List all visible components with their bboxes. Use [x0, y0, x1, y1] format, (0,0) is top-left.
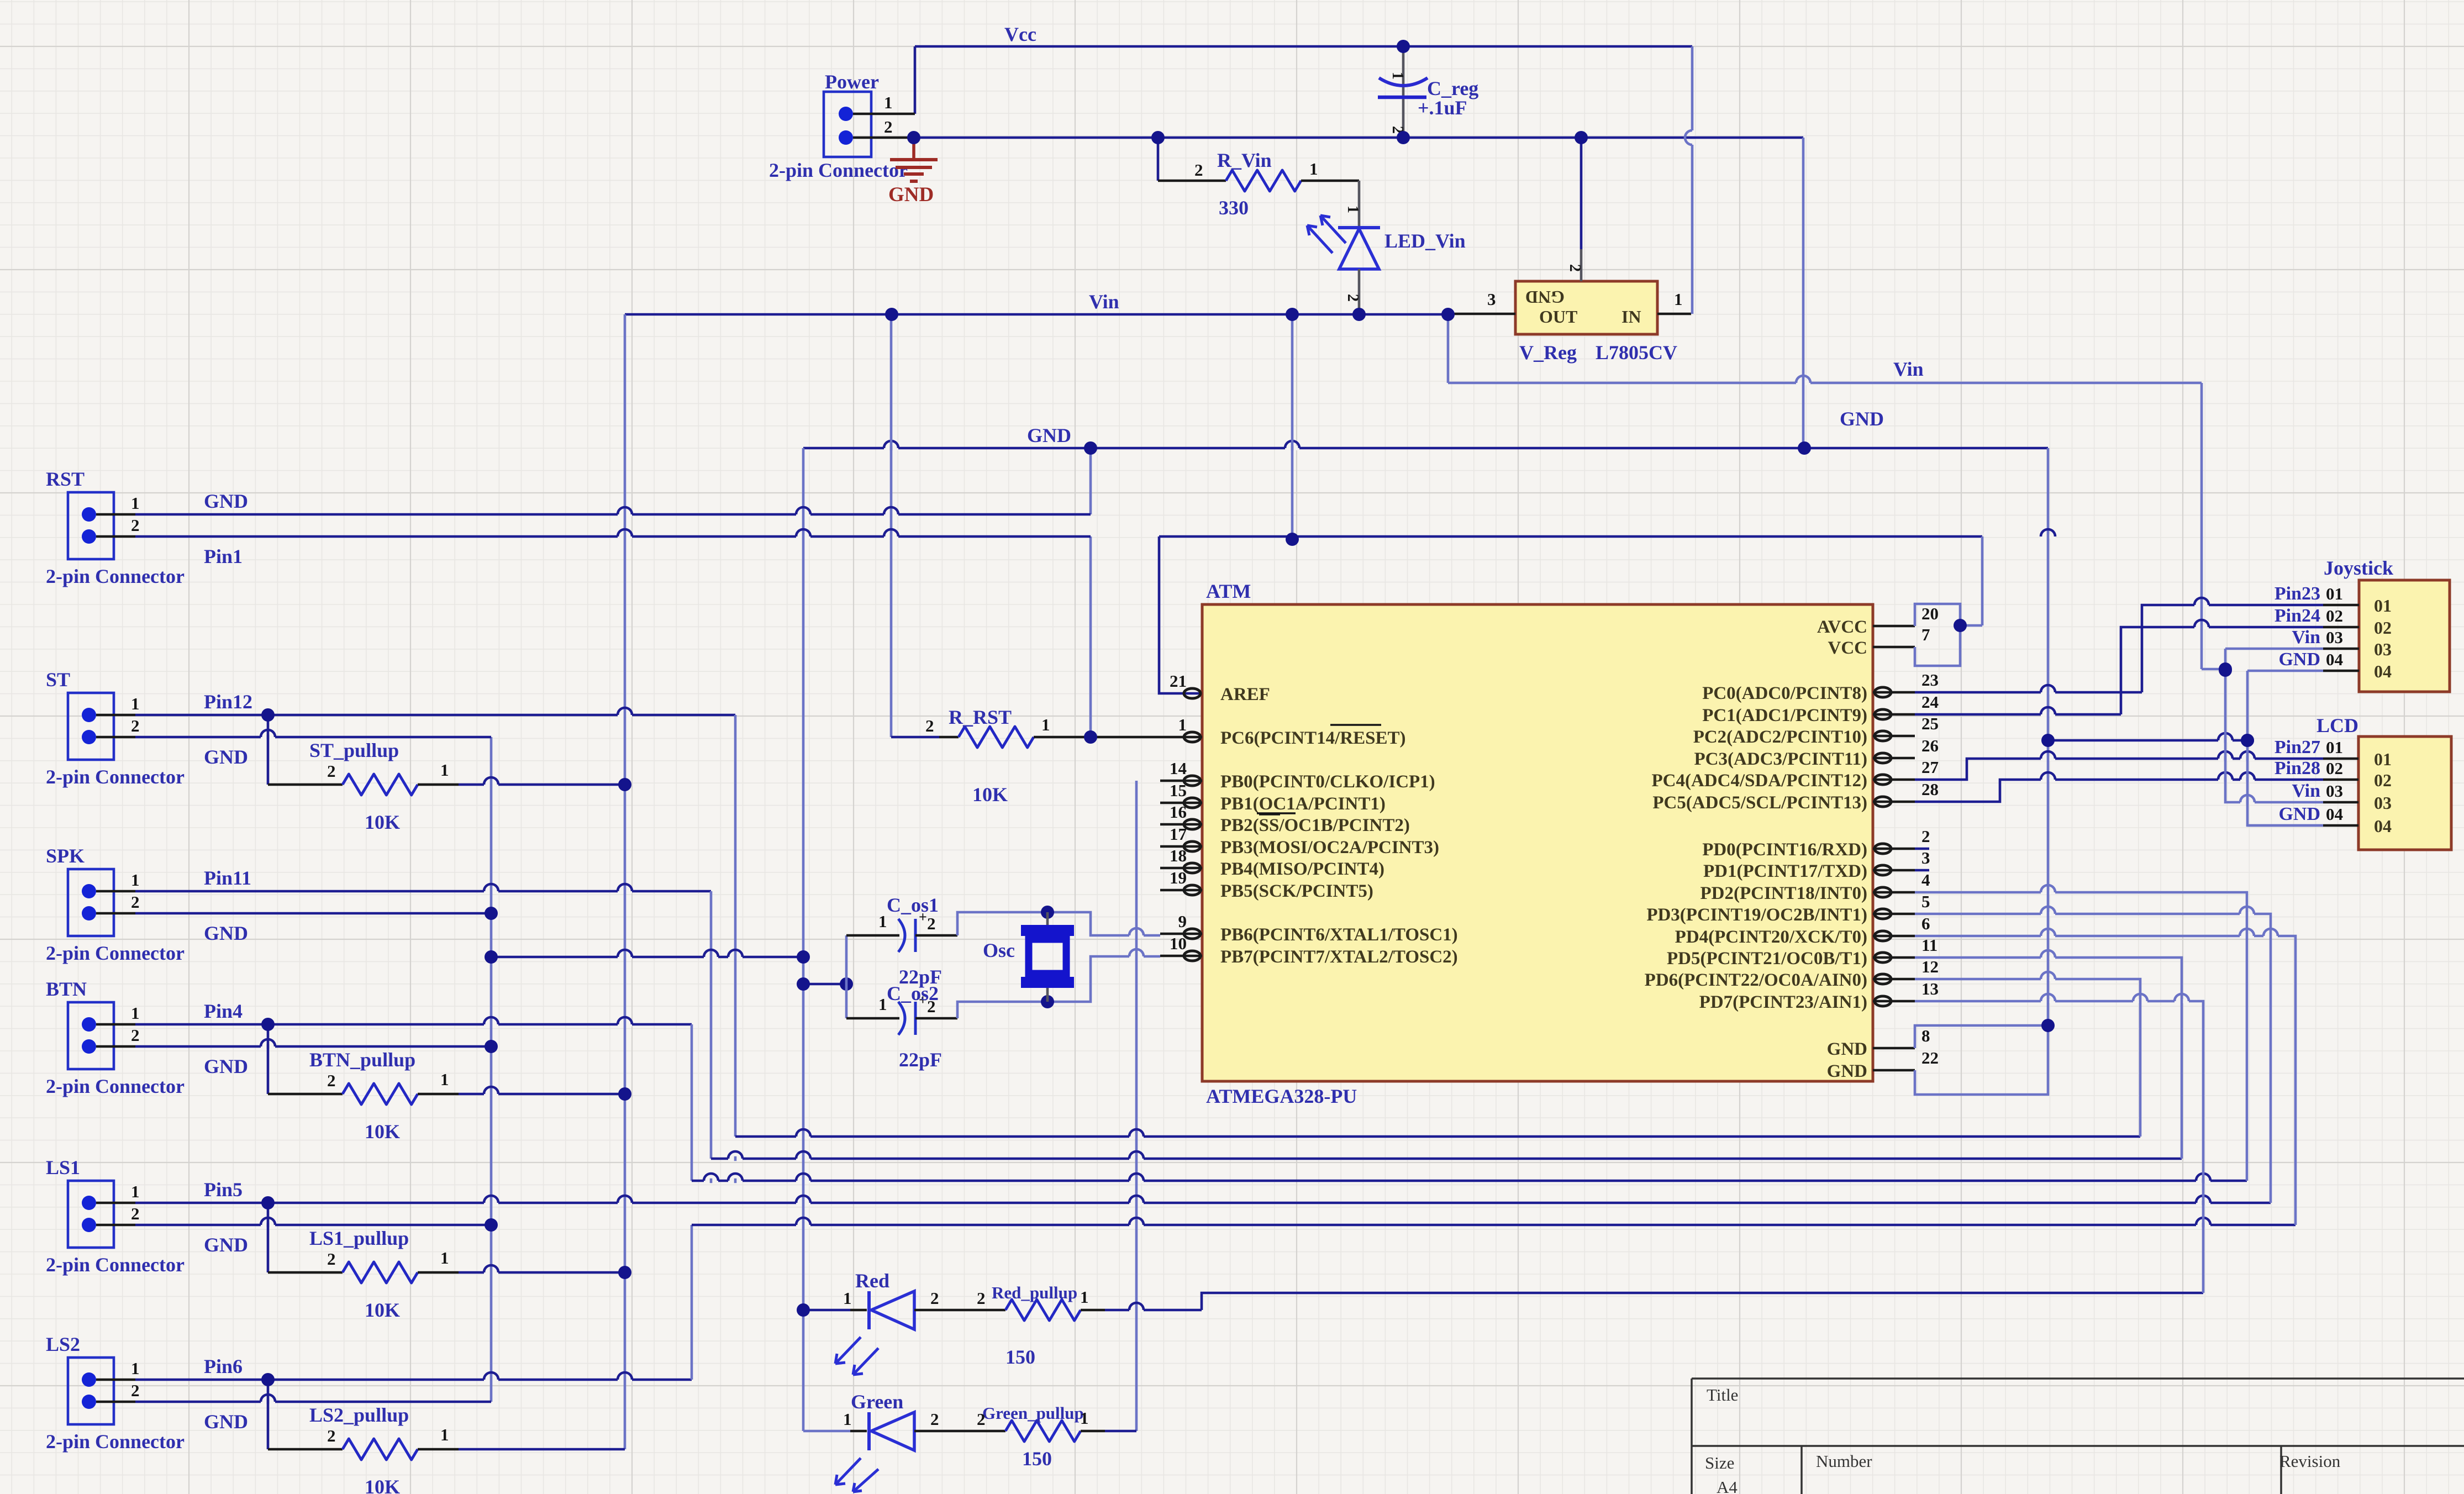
IC ATM ATMEGA328-PU [1202, 604, 1873, 1081]
svg-text:1: 1 [131, 1182, 140, 1201]
pin 25 PC2 right [1873, 735, 1915, 738]
connector Power [824, 92, 871, 157]
svg-text:Vcc: Vcc [1004, 23, 1036, 45]
pin 21 AREF [1184, 688, 1201, 698]
svg-text:GND: GND [204, 1411, 248, 1433]
title block [1692, 1377, 2464, 1380]
wire Vcc top bus [915, 45, 1692, 48]
svg-text:GND: GND [204, 746, 248, 768]
wire Pin28 net PC5 to LCD 02 [1915, 780, 2323, 802]
svg-text:Number: Number [1816, 1451, 1872, 1471]
wire Pin11 net [135, 890, 711, 893]
svg-text:1: 1 [1674, 290, 1683, 309]
wire Pin27 net PC4 to LCD 01 [1915, 759, 2323, 780]
svg-text:14: 14 [1170, 759, 1187, 778]
pin Joystick 02 [2323, 626, 2359, 629]
svg-text:22: 22 [1921, 1048, 1939, 1067]
svg-text:GND: GND [1827, 1061, 1867, 1081]
wire Vcc right riser to IN [1691, 46, 1694, 314]
resistor Red_pullup [914, 1309, 1005, 1312]
svg-text:Title: Title [1707, 1385, 1738, 1404]
pin 9 PB6 [1160, 933, 1202, 935]
svg-text:1: 1 [440, 1248, 449, 1267]
svg-text:2-pin Connector: 2-pin Connector [46, 1430, 185, 1453]
svg-text:7: 7 [1921, 625, 1930, 644]
svg-text:GND: GND [1840, 408, 1884, 430]
svg-text:Osc: Osc [983, 939, 1015, 961]
pin 16 PB2 [1160, 823, 1202, 826]
svg-text:2: 2 [1194, 160, 1203, 180]
svg-text:PB7(PCINT7/XTAL2/TOSC2): PB7(PCINT7/XTAL2/TOSC2) [1220, 947, 1458, 967]
wire Pin24 net PC1 to Joystick 02 [1915, 713, 2121, 716]
svg-text:V_Reg: V_Reg [1519, 341, 1577, 364]
wire Vin to AREF AVCC [1159, 535, 1982, 538]
svg-text:1: 1 [131, 493, 140, 513]
svg-text:1: 1 [440, 1070, 449, 1089]
svg-text:2: 2 [131, 1204, 140, 1223]
svg-text:A4: A4 [1717, 1477, 1738, 1494]
svg-text:02: 02 [2374, 770, 2392, 790]
pin Joystick 01 [2323, 604, 2359, 607]
svg-text:Vin: Vin [1089, 291, 1119, 313]
svg-text:PC2(ADC2/PCINT10): PC2(ADC2/PCINT10) [1693, 727, 1867, 747]
svg-text:VCC: VCC [1828, 638, 1868, 658]
capacitor C_os1 [846, 934, 899, 937]
svg-text:ATMEGA328-PU: ATMEGA328-PU [1206, 1085, 1357, 1107]
svg-text:9: 9 [1178, 912, 1187, 931]
svg-text:27: 27 [1921, 757, 1939, 777]
svg-text:11: 11 [1921, 935, 1937, 955]
wire LS2 GND [135, 1401, 491, 1403]
svg-text:2: 2 [327, 1249, 336, 1269]
svg-text:2-pin Connector: 2-pin Connector [46, 942, 185, 964]
svg-text:AVCC: AVCC [1817, 617, 1867, 637]
pin LCD 02 [2323, 778, 2358, 781]
svg-text:18: 18 [1170, 846, 1187, 865]
connector LCD [2358, 737, 2451, 850]
svg-text:10K: 10K [365, 1299, 400, 1321]
svg-text:01: 01 [2326, 584, 2343, 603]
svg-text:R_Vin: R_Vin [1217, 149, 1272, 171]
svg-text:OUT: OUT [1539, 307, 1577, 327]
wire Vin output net [625, 313, 1448, 316]
pin 27 PC4 right [1873, 778, 1915, 781]
svg-text:1: 1 [1041, 715, 1050, 734]
wire Pin1 net to PC6 [135, 535, 1091, 538]
svg-text:C_os1: C_os1 [887, 894, 939, 916]
LED LED_Vin [1358, 181, 1361, 228]
svg-text:ATM: ATM [1206, 580, 1251, 602]
svg-text:02: 02 [2374, 618, 2392, 638]
wire AREF drop [1159, 536, 1202, 693]
wire PD0 PD1 nubs [1915, 848, 1929, 850]
svg-text:2: 2 [927, 914, 936, 933]
connector BTN [68, 1002, 114, 1069]
svg-text:GND: GND [204, 922, 248, 944]
pin 11 PD5 right [1873, 956, 1915, 959]
svg-text:Vin: Vin [2292, 627, 2320, 648]
svg-text:2: 2 [884, 117, 893, 136]
LED Red [803, 1309, 850, 1312]
capacitor C_reg [1402, 48, 1405, 136]
svg-text:BTN_pullup: BTN_pullup [309, 1049, 415, 1071]
svg-text:2-pin Connector: 2-pin Connector [46, 1075, 185, 1097]
pin 13 PD7 right [1873, 1000, 1915, 1003]
svg-text:PC3(ADC3/PCINT11): PC3(ADC3/PCINT11) [1694, 749, 1867, 769]
junction dots [1397, 40, 1410, 53]
svg-text:04: 04 [2326, 804, 2343, 824]
svg-text:1: 1 [843, 1409, 852, 1429]
svg-text:Pin4: Pin4 [204, 1000, 243, 1022]
svg-text:1: 1 [1080, 1408, 1089, 1428]
svg-text:17: 17 [1170, 824, 1187, 844]
svg-text:2: 2 [131, 716, 140, 735]
pin 7 VCC right [1873, 646, 1915, 649]
svg-text:24: 24 [1921, 692, 1939, 712]
svg-text:2: 2 [977, 1409, 986, 1429]
svg-text:PB5(SCK/PCINT5): PB5(SCK/PCINT5) [1220, 881, 1373, 901]
svg-text:Green_pullup: Green_pullup [982, 1403, 1084, 1423]
pin 14 PB0 [1160, 780, 1202, 782]
svg-text:13: 13 [1921, 979, 1939, 998]
wire GND to LCD/Joystick [2048, 739, 2247, 742]
pin 24 PC1 right [1873, 713, 1915, 716]
svg-text:03: 03 [2326, 781, 2343, 801]
svg-text:03: 03 [2326, 628, 2343, 647]
wire caps left rail [845, 935, 848, 1018]
svg-text:6: 6 [1921, 914, 1930, 933]
svg-text:IN: IN [1621, 307, 1641, 327]
pin 28 PC5 right [1873, 801, 1915, 803]
svg-text:GND: GND [204, 490, 248, 512]
svg-text:Pin28: Pin28 [2275, 758, 2320, 778]
svg-text:1: 1 [843, 1288, 852, 1308]
wire GND right riser [1802, 138, 1805, 448]
wire crystal loop [957, 912, 1160, 935]
svg-text:PB6(PCINT6/XTAL1/TOSC1): PB6(PCINT6/XTAL1/TOSC1) [1220, 925, 1458, 945]
wire rail Vin to R_RST [890, 314, 893, 737]
svg-text:+.1uF: +.1uF [1418, 97, 1467, 119]
svg-text:150: 150 [1022, 1448, 1052, 1470]
svg-text:2: 2 [327, 1426, 336, 1445]
pin 2 PD0 right [1873, 848, 1915, 850]
svg-text:12: 12 [1921, 957, 1939, 976]
resistor ST_pullup [267, 715, 270, 785]
svg-text:16: 16 [1170, 802, 1187, 822]
resistor Green_pullup [914, 1430, 1005, 1433]
resistor LS2_pullup [267, 1380, 270, 1449]
svg-text:BTN: BTN [46, 978, 87, 1000]
svg-text:2: 2 [327, 761, 336, 781]
svg-text:GND: GND [1525, 287, 1565, 307]
svg-text:19: 19 [1170, 868, 1187, 887]
svg-text:04: 04 [2374, 816, 2392, 836]
wire Pin12 net [135, 714, 735, 717]
svg-text:26: 26 [1921, 736, 1939, 755]
svg-text:2-pin Connector: 2-pin Connector [46, 766, 185, 788]
svg-text:C_reg: C_reg [1427, 77, 1478, 99]
pin 10 PB7 [1160, 955, 1202, 958]
wire rail PB0 to Green [1135, 781, 1138, 1431]
svg-text:1: 1 [131, 1003, 140, 1023]
pin 6 PD4 right [1873, 935, 1915, 938]
crystal Osc [1046, 912, 1049, 928]
svg-text:2-pin Connector: 2-pin Connector [769, 159, 908, 181]
svg-text:25: 25 [1921, 714, 1939, 733]
wire Pin6 row to PD4 [692, 1224, 2295, 1227]
svg-text:2: 2 [930, 1409, 939, 1429]
svg-text:PD3(PCINT19/OC2B/INT1): PD3(PCINT19/OC2B/INT1) [1646, 905, 1867, 925]
pin 23 PC0 right [1873, 691, 1915, 694]
svg-text:15: 15 [1170, 781, 1187, 800]
svg-text:2-pin Connector: 2-pin Connector [46, 1254, 185, 1276]
wire SPK GND [135, 912, 491, 915]
svg-text:LS2: LS2 [46, 1333, 80, 1355]
svg-text:01: 01 [2326, 738, 2343, 757]
wire BTN GND [135, 1045, 491, 1048]
svg-text:PD0(PCINT16/RXD): PD0(PCINT16/RXD) [1702, 840, 1867, 860]
svg-text:1: 1 [131, 694, 140, 713]
connector LS1 [68, 1181, 114, 1248]
svg-text:1: 1 [878, 912, 887, 931]
svg-text:Size: Size [1705, 1453, 1734, 1472]
wire Pin6 net [135, 1379, 692, 1381]
svg-text:4: 4 [1921, 870, 1930, 890]
svg-text:1: 1 [131, 870, 140, 890]
svg-text:Red_pullup: Red_pullup [992, 1283, 1077, 1302]
svg-text:PD5(PCINT21/OC0B/T1): PD5(PCINT21/OC0B/T1) [1667, 949, 1867, 969]
svg-text:04: 04 [2374, 661, 2392, 681]
connector SPK [68, 869, 114, 936]
regulator V_Reg L7805CV [1515, 281, 1657, 334]
svg-text:1: 1 [131, 1359, 140, 1378]
svg-text:RST: RST [46, 468, 85, 490]
svg-text:02: 02 [2326, 759, 2343, 778]
svg-text:Power: Power [825, 71, 879, 93]
svg-text:Pin12: Pin12 [204, 691, 252, 713]
svg-text:04: 04 [2326, 650, 2343, 669]
svg-text:2: 2 [1566, 264, 1583, 272]
wire ST GND [135, 736, 491, 739]
svg-text:GND: GND [1027, 424, 1071, 446]
svg-text:Vin: Vin [1893, 358, 1924, 380]
svg-text:ST_pullup: ST_pullup [309, 739, 399, 761]
svg-text:Pin1: Pin1 [204, 545, 243, 567]
pin 15 PB1 [1160, 802, 1202, 804]
wire Pin23 net PC0 to Joystick 01 [1915, 691, 2142, 694]
svg-text:2: 2 [131, 515, 140, 535]
wire AVCC VCC feed [1915, 604, 1960, 666]
svg-text:2: 2 [930, 1288, 939, 1308]
svg-text:PB4(MISO/PCINT4): PB4(MISO/PCINT4) [1220, 859, 1384, 879]
svg-text:GND: GND [204, 1234, 248, 1256]
svg-text:02: 02 [2326, 606, 2343, 625]
wire Pin1 riser to R_RST [1089, 536, 1092, 737]
svg-text:20: 20 [1921, 604, 1939, 623]
svg-text:LED_Vin: LED_Vin [1384, 230, 1466, 252]
svg-text:PD7(PCINT23/AIN1): PD7(PCINT23/AIN1) [1699, 992, 1867, 1012]
pin 22 GND right [1873, 1069, 1915, 1072]
svg-text:2: 2 [925, 716, 934, 735]
svg-text:GND: GND [888, 183, 934, 206]
wire GND mid bus [803, 447, 2048, 450]
pin 4 PD2 right [1873, 891, 1915, 894]
svg-text:L7805CV: L7805CV [1596, 341, 1677, 364]
connector Joystick [2359, 580, 2450, 692]
svg-text:GND: GND [2278, 649, 2320, 670]
svg-text:3: 3 [1487, 290, 1496, 309]
connector LS2 [68, 1358, 114, 1424]
pin 5 PD3 right [1873, 913, 1915, 916]
wire rail GND center [802, 448, 805, 1431]
svg-text:2: 2 [1344, 294, 1361, 302]
pin LCD 04 [2323, 824, 2358, 827]
svg-text:Revision: Revision [2279, 1451, 2341, 1471]
pin LCD 01 [2323, 757, 2358, 760]
pin 17 PB3 [1160, 845, 1202, 848]
svg-text:GND: GND [1827, 1039, 1867, 1059]
wire Pin5 net [135, 1202, 2271, 1204]
pin 3 PD1 right [1873, 869, 1915, 872]
svg-text:LS1: LS1 [46, 1156, 80, 1179]
svg-text:PB1(OC1A/PCINT1): PB1(OC1A/PCINT1) [1220, 794, 1386, 814]
svg-text:03: 03 [2374, 639, 2392, 659]
resistor R_RST [891, 736, 939, 739]
svg-text:Pin5: Pin5 [204, 1179, 243, 1201]
wire rail Vin to VCC row [1291, 314, 1294, 539]
svg-text:GND: GND [204, 1055, 248, 1077]
svg-text:8: 8 [1921, 1026, 1930, 1045]
pin LCD 03 [2323, 801, 2358, 804]
svg-text:AREF: AREF [1220, 685, 1270, 704]
svg-text:22pF: 22pF [899, 1049, 942, 1071]
svg-text:1: 1 [878, 995, 887, 1014]
wire power GND net row [914, 136, 1803, 139]
svg-text:ST: ST [46, 669, 70, 691]
pin 19 PB5 [1160, 889, 1202, 892]
svg-text:2: 2 [1921, 827, 1930, 846]
svg-text:PC0(ADC0/PCINT8): PC0(ADC0/PCINT8) [1702, 683, 1867, 703]
connector ST [68, 693, 114, 760]
svg-text:5: 5 [1921, 892, 1930, 911]
svg-text:PC5(ADC5/SCL/PCINT13): PC5(ADC5/SCL/PCINT13) [1652, 793, 1867, 813]
svg-text:2: 2 [327, 1071, 336, 1090]
svg-text:10K: 10K [365, 1120, 400, 1143]
svg-text:10: 10 [1170, 934, 1187, 953]
svg-text:Vin: Vin [2292, 781, 2320, 801]
svg-text:LS2_pullup: LS2_pullup [309, 1404, 409, 1426]
wire rail GND right column [2047, 448, 2050, 1025]
svg-text:1: 1 [1309, 159, 1318, 178]
svg-text:PC4(ADC4/SDA/PCINT12): PC4(ADC4/SDA/PCINT12) [1652, 771, 1868, 791]
svg-text:21: 21 [1170, 671, 1187, 691]
svg-text:1: 1 [440, 760, 449, 780]
svg-text:2-pin Connector: 2-pin Connector [46, 565, 185, 587]
svg-text:01: 01 [2374, 749, 2392, 769]
ground GND symbol [912, 138, 915, 159]
svg-text:Pin6: Pin6 [204, 1355, 243, 1377]
wire chip GND pins [1915, 1025, 2048, 1048]
svg-text:1: 1 [884, 93, 893, 112]
svg-text:Pin24: Pin24 [2275, 606, 2320, 626]
svg-text:150: 150 [1005, 1346, 1035, 1368]
svg-text:PD2(PCINT18/INT0): PD2(PCINT18/INT0) [1700, 883, 1868, 903]
svg-text:1: 1 [1080, 1287, 1089, 1307]
svg-text:Pin27: Pin27 [2275, 737, 2320, 757]
svg-text:1: 1 [1344, 206, 1361, 213]
wire rail pullup Vin column [624, 314, 626, 1449]
svg-text:PB0(PCINT0/CLKO/ICP1): PB0(PCINT0/CLKO/ICP1) [1220, 772, 1435, 792]
pin 8 GND right [1873, 1047, 1915, 1050]
svg-text:GND: GND [2278, 804, 2320, 824]
svg-text:Pin11: Pin11 [204, 867, 251, 889]
svg-text:10K: 10K [972, 783, 1008, 806]
svg-text:LS1_pullup: LS1_pullup [309, 1227, 409, 1249]
pin 18 PB4 [1160, 867, 1202, 870]
wire LS1 GND [135, 1224, 491, 1227]
svg-text:2: 2 [131, 1025, 140, 1045]
svg-text:10K: 10K [365, 811, 400, 833]
svg-text:1: 1 [1389, 72, 1406, 80]
wire RST GND riser [1089, 448, 1092, 514]
svg-text:28: 28 [1921, 780, 1939, 799]
svg-text:2: 2 [131, 1381, 140, 1400]
svg-text:330: 330 [1219, 197, 1249, 219]
svg-text:Joystick: Joystick [2324, 557, 2393, 579]
capacitor C_os2 [846, 1017, 899, 1020]
svg-text:2: 2 [977, 1288, 986, 1308]
svg-text:01: 01 [2374, 596, 2392, 616]
wire rail GND left column [490, 737, 493, 1402]
svg-text:PD1(PCINT17/TXD): PD1(PCINT17/TXD) [1703, 861, 1867, 881]
svg-text:1: 1 [440, 1425, 449, 1444]
svg-text:2: 2 [131, 892, 140, 912]
resistor R_Vin [1157, 138, 1160, 181]
svg-text:C_os2: C_os2 [887, 982, 939, 1004]
resistor LS1_pullup [267, 1203, 270, 1272]
LED Green [803, 1430, 850, 1433]
pin 12 PD6 right [1873, 978, 1915, 981]
svg-text:10K: 10K [365, 1476, 400, 1494]
svg-text:PC6(PCINT14/RESET): PC6(PCINT14/RESET) [1220, 728, 1406, 748]
wire Pin4 net [135, 1023, 692, 1026]
wire Vin to Joystick 03 and LCD 03 [2202, 668, 2225, 671]
svg-text:LCD: LCD [2316, 714, 2358, 737]
svg-text:PC1(ADC1/PCINT9): PC1(ADC1/PCINT9) [1702, 706, 1867, 725]
pin 26 PC3 right [1873, 757, 1915, 760]
pin Joystick 04 [2323, 670, 2359, 672]
svg-text:PD4(PCINT20/XCK/T0): PD4(PCINT20/XCK/T0) [1675, 927, 1867, 947]
wire RST GND net [135, 513, 1091, 516]
svg-text:3: 3 [1921, 848, 1930, 867]
connector RST [68, 492, 114, 559]
pin Joystick 03 [2323, 648, 2359, 650]
svg-text:Pin23: Pin23 [2275, 583, 2320, 604]
svg-text:Green: Green [851, 1391, 903, 1413]
pin 20 AVCC right [1873, 625, 1915, 628]
wire GND jumper to crystal caps [491, 956, 803, 959]
svg-text:03: 03 [2374, 793, 2392, 813]
wire GND to Joystick 04 and LCD 04 [2247, 670, 2323, 672]
svg-text:Red: Red [855, 1270, 889, 1292]
svg-text:PB3(MOSI/OC2A/PCINT3): PB3(MOSI/OC2A/PCINT3) [1220, 838, 1439, 858]
svg-text:1: 1 [1178, 715, 1187, 734]
svg-text:SPK: SPK [46, 845, 85, 867]
svg-text:PD6(PCINT22/OC0A/AIN0): PD6(PCINT22/OC0A/AIN0) [1645, 970, 1867, 990]
svg-text:23: 23 [1921, 670, 1939, 690]
pin 1 PC6 [1160, 736, 1202, 739]
resistor BTN_pullup [267, 1024, 270, 1094]
